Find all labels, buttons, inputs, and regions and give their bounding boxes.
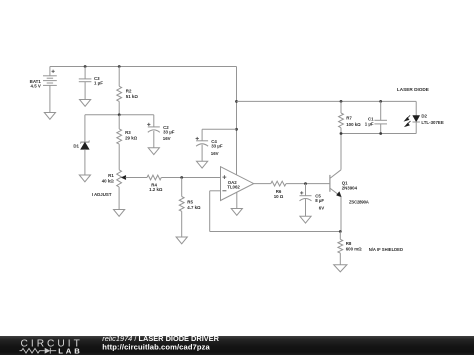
node divider mid: [118, 113, 121, 116]
node base / C5: [304, 182, 307, 185]
svg-text:51 kΩ: 51 kΩ: [126, 94, 139, 99]
node emitter / R8: [339, 230, 342, 233]
footer bar: [0, 336, 474, 355]
label LASER DIODE: [397, 87, 429, 92]
wire: [237, 100, 417, 102]
svg-text:ZSC2890A: ZSC2890A: [349, 200, 369, 205]
capacitor C1: [365, 101, 387, 133]
svg-text:33 µF: 33 µF: [211, 144, 223, 149]
resistor R6: [271, 181, 286, 199]
svg-text:D2: D2: [421, 114, 427, 119]
wire: [210, 191, 340, 232]
svg-text:R7: R7: [346, 116, 352, 121]
wire: [50, 66, 237, 68]
svg-text:1 µF: 1 µF: [94, 81, 103, 86]
svg-text:http://circuitlab.com/cad7pza: http://circuitlab.com/cad7pza: [102, 342, 210, 351]
battery BAT1: [30, 67, 57, 113]
node supply / laser rail: [235, 100, 238, 103]
svg-text:I ADJUST: I ADJUST: [92, 192, 112, 197]
zener diode D1: [73, 115, 89, 175]
potentiometer R1: [92, 170, 129, 210]
node C1 top: [379, 100, 382, 103]
wire: [210, 190, 221, 192]
svg-text:R3: R3: [125, 130, 131, 135]
ground: [44, 113, 55, 120]
svg-text:29 kΩ: 29 kΩ: [125, 136, 138, 141]
svg-text:600 mΩ: 600 mΩ: [346, 246, 362, 251]
node opamp+ / R5: [180, 176, 183, 179]
svg-text:2N3904: 2N3904: [342, 186, 358, 191]
ground: [114, 210, 125, 217]
svg-text:4.5 V: 4.5 V: [31, 84, 41, 89]
resistor R7: [339, 101, 362, 133]
wire: [129, 177, 147, 179]
wire: [202, 128, 236, 130]
svg-text:R5: R5: [187, 199, 193, 204]
op-amp OA2: [221, 167, 254, 209]
transistor Q1: [330, 134, 358, 232]
svg-text:10 Ω: 10 Ω: [274, 194, 284, 199]
svg-text:40 kΩ: 40 kΩ: [102, 179, 115, 184]
svg-text:16V: 16V: [211, 151, 219, 156]
svg-text:1 µF: 1 µF: [365, 122, 374, 127]
svg-text:1.2 kΩ: 1.2 kΩ: [149, 187, 163, 192]
footer title text: [102, 334, 219, 351]
svg-text:D1: D1: [73, 143, 79, 148]
label N/A IF SHIELDED: [369, 247, 403, 252]
capacitor C4: [196, 129, 223, 161]
svg-text:R8: R8: [346, 241, 352, 246]
svg-text:6V: 6V: [319, 206, 324, 211]
wire: [254, 183, 271, 185]
capacitor C2: [147, 115, 175, 148]
node C1 bottom: [379, 132, 382, 135]
capacitor C5: [300, 184, 325, 217]
wire: [341, 133, 416, 135]
node R7 top: [340, 100, 343, 103]
resistor R4: [147, 175, 163, 192]
svg-text:4.7 kΩ: 4.7 kΩ: [187, 205, 201, 210]
svg-text:LASER DIODE: LASER DIODE: [397, 87, 429, 92]
svg-text:N/A IF SHIELDED: N/A IF SHIELDED: [369, 247, 403, 252]
wire: [236, 67, 238, 175]
CircuitLab logo: [20, 339, 83, 355]
wire: [85, 114, 154, 116]
node R7 bottom / collector: [340, 132, 343, 135]
ground: [148, 148, 159, 155]
ground: [79, 175, 90, 182]
wire: [161, 177, 220, 179]
ground: [176, 237, 187, 244]
svg-text:8 µF: 8 µF: [315, 198, 324, 203]
node supply / C4: [235, 128, 238, 131]
resistor R5: [179, 178, 201, 238]
ground: [334, 265, 347, 272]
ground: [231, 209, 242, 216]
laser diode D2: [405, 101, 444, 133]
capacitor C3: [79, 67, 103, 100]
svg-text:LTL-307EE: LTL-307EE: [421, 120, 443, 125]
svg-text:LAB: LAB: [58, 346, 82, 355]
svg-text:33 µF: 33 µF: [163, 130, 175, 135]
ground: [197, 161, 208, 168]
svg-text:16V: 16V: [163, 136, 171, 141]
resistor R2: [117, 67, 139, 115]
ground: [300, 216, 311, 223]
resistor R8: [338, 232, 362, 265]
ground: [80, 100, 91, 107]
label ZSC2890A: [349, 200, 369, 205]
svg-text:R2: R2: [126, 88, 132, 93]
resistor R3: [117, 115, 138, 170]
svg-text:TL062: TL062: [227, 185, 240, 190]
node VBAT at R2: [118, 65, 121, 68]
node VBAT at C3: [84, 65, 87, 68]
svg-text:R1: R1: [108, 173, 114, 178]
wire: [286, 183, 330, 185]
svg-text:100 kΩ: 100 kΩ: [346, 122, 361, 127]
